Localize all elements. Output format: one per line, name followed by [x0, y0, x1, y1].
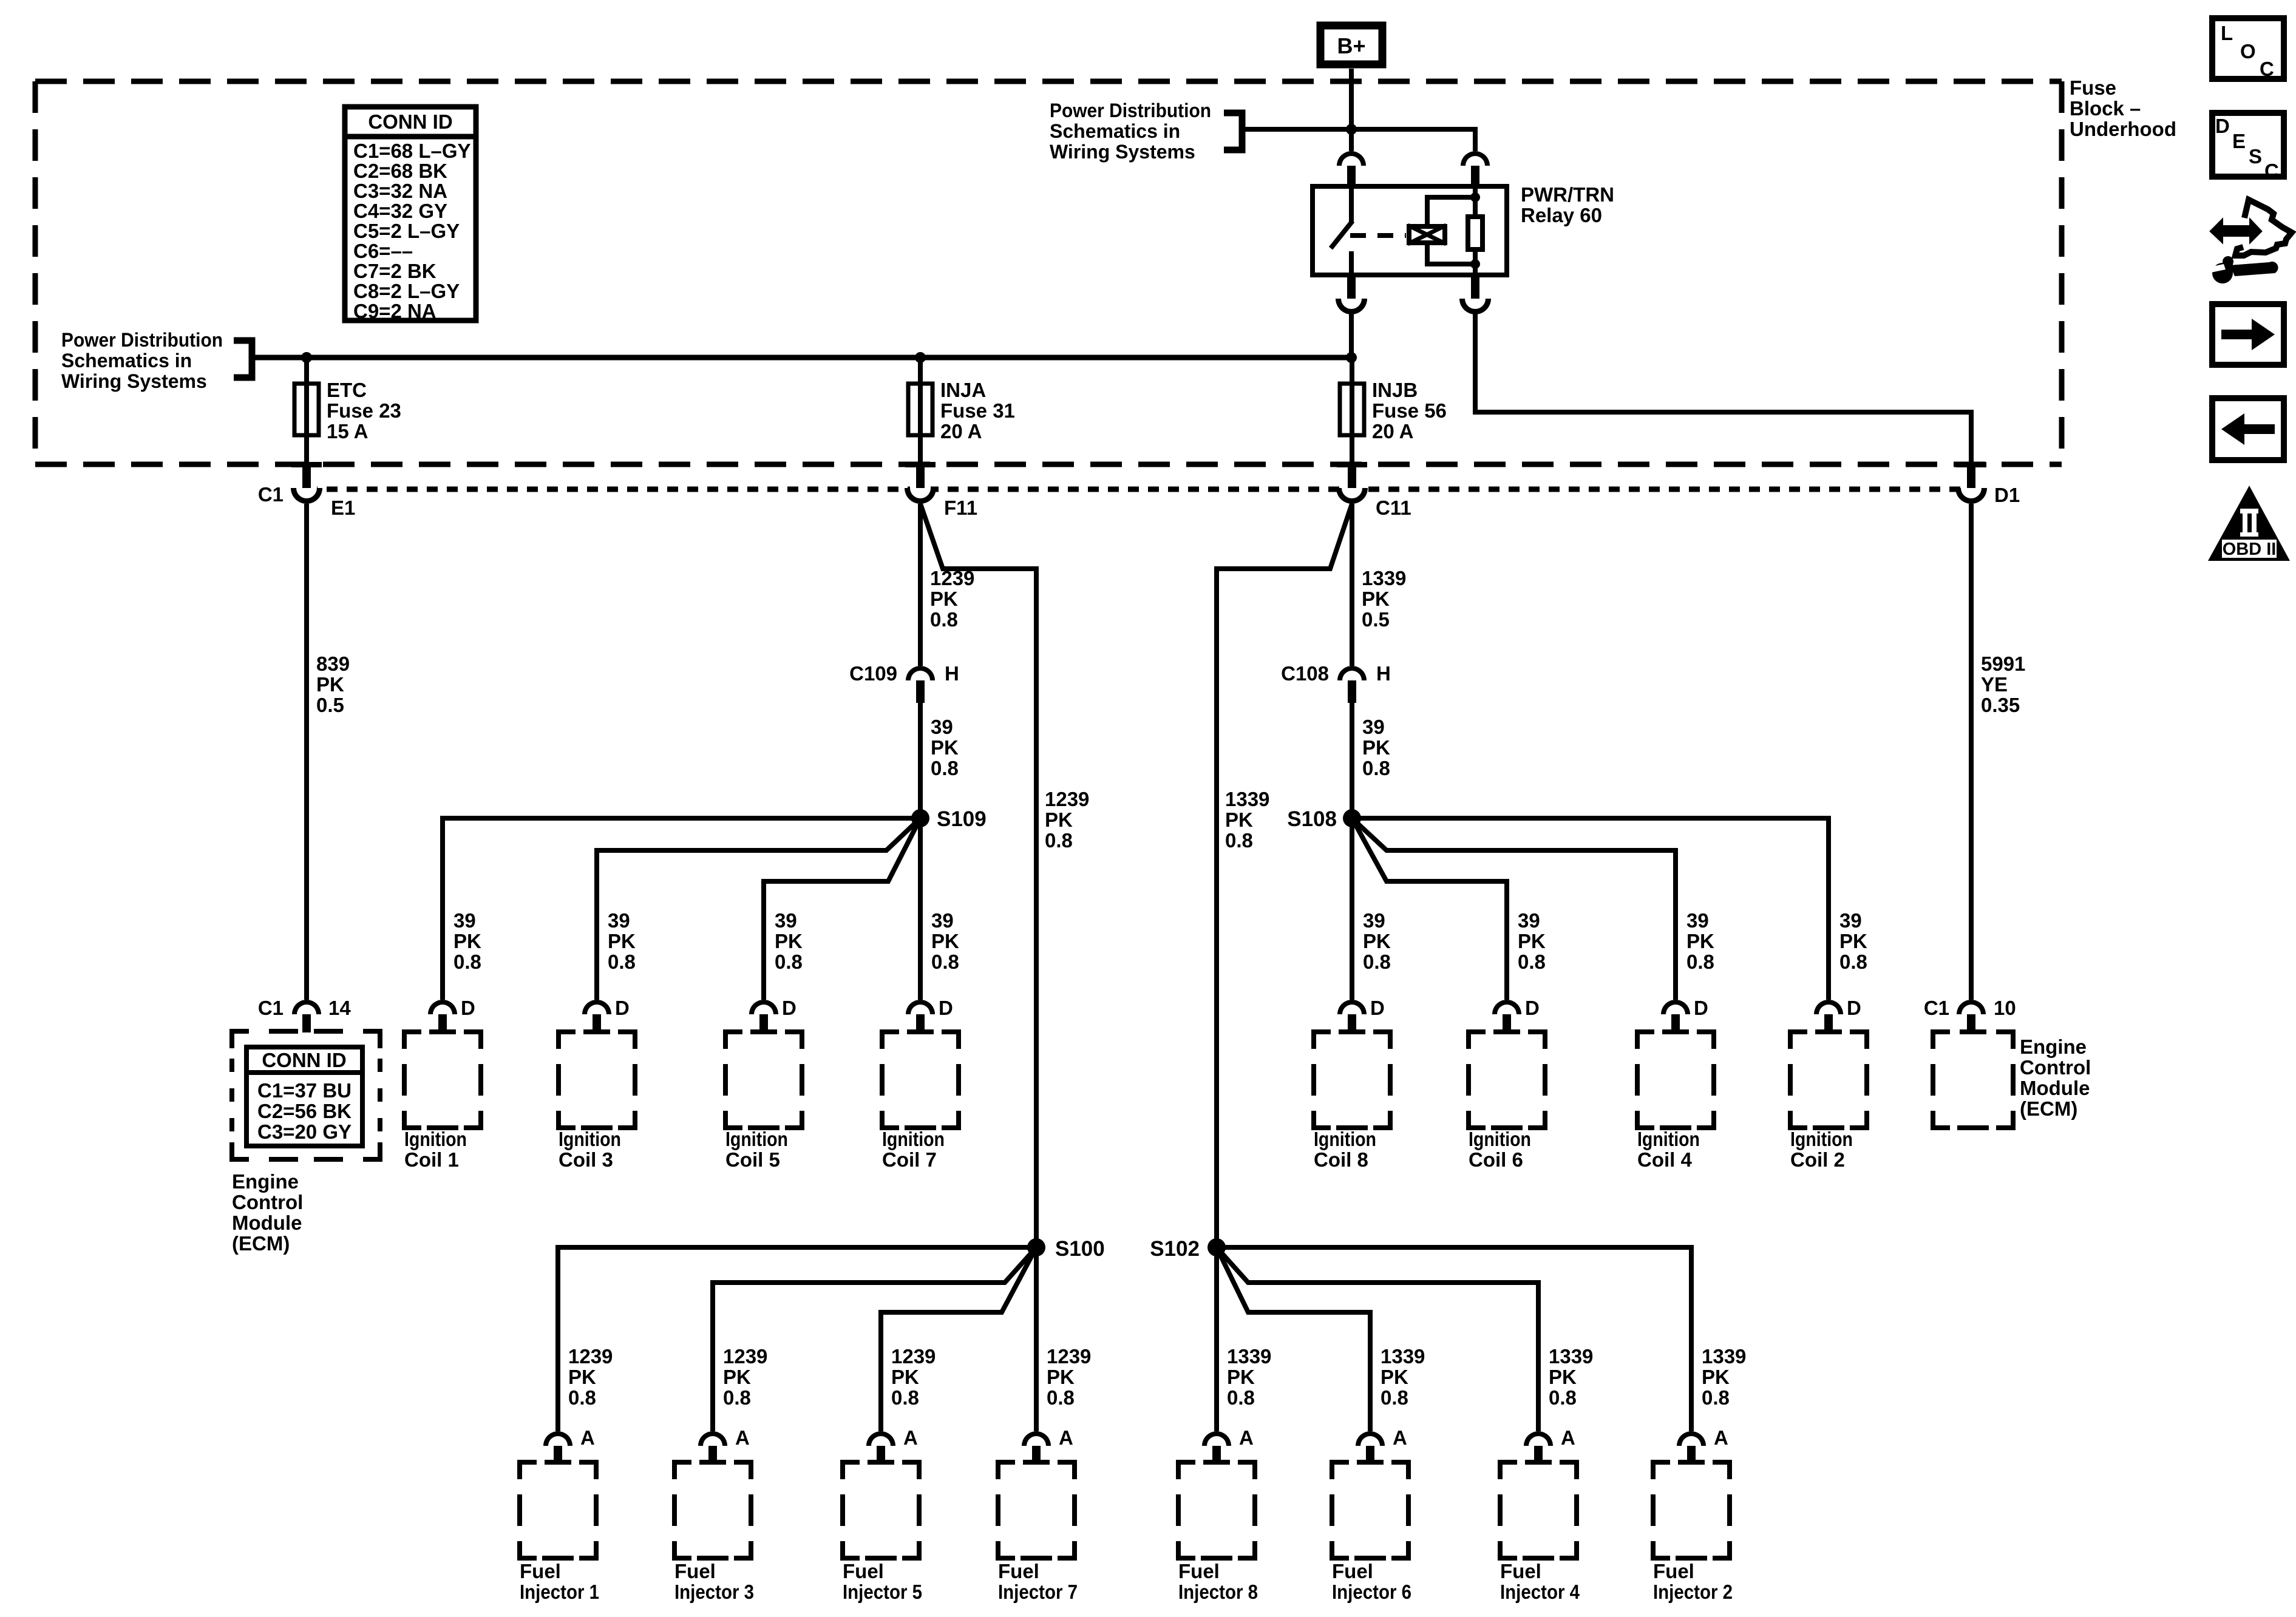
wire relay pin 5 to D1	[1475, 312, 1971, 462]
ignition coil 1 box	[404, 1032, 481, 1128]
svg-text:39: 39	[1362, 716, 1385, 738]
connector C108	[1337, 666, 1367, 680]
svg-text:Ignition: Ignition	[404, 1128, 467, 1150]
svg-text:Engine: Engine	[232, 1170, 299, 1193]
svg-text:1239: 1239	[723, 1345, 767, 1368]
svg-text:C: C	[2260, 58, 2274, 80]
svg-text:Injector 1: Injector 1	[520, 1581, 599, 1603]
connector F11	[905, 462, 936, 467]
svg-text:Coil 6: Coil 6	[1469, 1148, 1523, 1171]
svg-text:Schematics in: Schematics in	[1050, 120, 1180, 142]
svg-text:Coil 7: Coil 7	[882, 1148, 937, 1171]
svg-text:D: D	[1525, 997, 1540, 1019]
svg-text:Module: Module	[232, 1212, 302, 1234]
svg-text:0.8: 0.8	[1518, 951, 1546, 973]
svg-text:C11: C11	[1376, 497, 1411, 519]
relay pin 3 connector	[1347, 277, 1356, 299]
svg-text:D: D	[1694, 997, 1708, 1019]
fuel injector 4 box	[1500, 1462, 1577, 1558]
connector coil 8 pin D	[1337, 1000, 1367, 1014]
svg-text:1339: 1339	[1225, 788, 1269, 810]
svg-text:A: A	[1714, 1426, 1728, 1449]
svg-text:A: A	[1393, 1426, 1407, 1449]
svg-text:0.8: 0.8	[930, 608, 958, 631]
ignition coil 3 box	[559, 1032, 635, 1128]
fuel injector 2 box	[1653, 1462, 1730, 1558]
connector C109	[906, 666, 935, 680]
svg-text:0.8: 0.8	[1225, 829, 1253, 852]
connector ECM C1 pin 10	[1957, 1000, 1986, 1014]
svg-text:Injector 3: Injector 3	[674, 1581, 754, 1603]
svg-text:Injector 6: Injector 6	[1332, 1581, 1411, 1603]
wire S108 to coil 6	[1352, 818, 1507, 1000]
svg-text:PK: PK	[931, 930, 959, 952]
ignition coil 2 box	[1790, 1032, 1867, 1128]
svg-text:Ignition: Ignition	[1469, 1128, 1531, 1150]
fuel injector 8 box	[1178, 1462, 1255, 1558]
fuel injector 3 box	[674, 1462, 751, 1558]
relay pin 1 connector	[1337, 151, 1366, 166]
wire S109 to coil 5	[764, 818, 920, 1000]
svg-text:C1=68 L–GY: C1=68 L–GY	[353, 140, 471, 162]
svg-text:Ignition: Ignition	[1790, 1128, 1853, 1150]
svg-text:10: 10	[1994, 997, 2016, 1019]
svg-text:PK: PK	[891, 1366, 919, 1388]
svg-text:C7=2 BK: C7=2 BK	[353, 260, 436, 282]
connector injector 4 pin A	[1524, 1431, 1553, 1446]
svg-text:39: 39	[931, 909, 954, 932]
svg-text:Block –: Block –	[2070, 97, 2141, 120]
svg-text:D1: D1	[1994, 484, 2020, 506]
svg-text:PK: PK	[316, 673, 344, 696]
svg-text:PK: PK	[453, 930, 481, 952]
splice S102	[1207, 1238, 1226, 1256]
connector injector 6 pin A	[1356, 1431, 1385, 1446]
svg-text:Ignition: Ignition	[882, 1128, 945, 1150]
svg-text:39: 39	[1363, 909, 1385, 932]
wire S109 to coil 3	[597, 818, 920, 1000]
svg-text:PK: PK	[1227, 1366, 1255, 1388]
relay switch	[1349, 184, 1354, 222]
svg-text:1239: 1239	[1045, 788, 1089, 810]
svg-text:PK: PK	[1362, 588, 1390, 610]
svg-text:H: H	[945, 662, 959, 685]
svg-text:Fuel: Fuel	[1500, 1560, 1541, 1582]
icon component view (arrow and wrench)	[2211, 220, 2261, 242]
svg-text:1239: 1239	[1047, 1345, 1091, 1368]
connector coil 6 pin D	[1492, 1000, 1521, 1014]
svg-text:0.8: 0.8	[775, 951, 803, 973]
svg-text:E: E	[2232, 130, 2246, 152]
svg-text:Fuel: Fuel	[843, 1560, 884, 1582]
svg-text:Fuse 56: Fuse 56	[1372, 399, 1447, 422]
svg-text:YE: YE	[1981, 673, 2008, 696]
svg-text:A: A	[903, 1426, 918, 1449]
svg-text:1339: 1339	[1549, 1345, 1593, 1368]
svg-text:0.8: 0.8	[931, 757, 959, 779]
svg-text:Power Distribution: Power Distribution	[1050, 100, 1211, 121]
svg-text:Ignition: Ignition	[559, 1128, 621, 1150]
node feed junction	[1346, 124, 1357, 135]
wire S108 to coil 4	[1352, 818, 1676, 1000]
svg-text:D: D	[939, 997, 953, 1019]
svg-text:39: 39	[1518, 909, 1540, 932]
icon LOC	[2212, 18, 2284, 79]
connector coil 1 pin D	[428, 1000, 457, 1014]
svg-text:20 A: 20 A	[940, 420, 982, 442]
svg-text:Fuse 31: Fuse 31	[940, 399, 1015, 422]
svg-text:Injector 5: Injector 5	[843, 1581, 922, 1603]
svg-text:(ECM): (ECM)	[2020, 1097, 2077, 1120]
svg-text:PK: PK	[930, 588, 958, 610]
connector coil 5 pin D	[749, 1000, 778, 1014]
svg-text:E1: E1	[331, 497, 355, 519]
svg-text:39: 39	[453, 909, 476, 932]
svg-text:1239: 1239	[891, 1345, 936, 1368]
svg-text:PK: PK	[775, 930, 803, 952]
svg-text:Injector 2: Injector 2	[1653, 1581, 1733, 1603]
svg-text:S102: S102	[1150, 1237, 1200, 1261]
svg-text:1339: 1339	[1381, 1345, 1425, 1368]
svg-text:Injector 4: Injector 4	[1500, 1581, 1580, 1603]
icon arrow left	[2212, 398, 2284, 460]
svg-text:14: 14	[328, 997, 351, 1019]
wire 5991 YE	[1969, 504, 1974, 1000]
ECM CONN ID table	[246, 1047, 362, 1146]
svg-text:(ECM): (ECM)	[232, 1232, 290, 1255]
svg-text:C1: C1	[258, 997, 284, 1019]
svg-text:PK: PK	[608, 930, 636, 952]
svg-text:L: L	[2221, 22, 2233, 44]
connector D1	[1956, 462, 1986, 467]
svg-text:1339: 1339	[1362, 567, 1406, 589]
ECM (left) dashed box	[232, 1031, 380, 1159]
connector coil 2 pin D	[1814, 1000, 1843, 1014]
svg-text:C8=2 L–GY: C8=2 L–GY	[353, 280, 460, 302]
svg-text:15 A: 15 A	[327, 420, 368, 442]
svg-text:Fuel: Fuel	[674, 1560, 716, 1582]
svg-text:C3=20 GY: C3=20 GY	[257, 1120, 352, 1143]
svg-text:D: D	[782, 997, 796, 1019]
svg-text:Fuse 23: Fuse 23	[327, 399, 401, 422]
svg-text:Coil 1: Coil 1	[404, 1148, 459, 1171]
svg-text:A: A	[1059, 1426, 1073, 1449]
relay PWR/TRN box	[1313, 186, 1507, 275]
svg-text:C4=32 GY: C4=32 GY	[353, 200, 447, 222]
wire S102 to injector 4	[1217, 1247, 1538, 1431]
svg-text:0.8: 0.8	[891, 1386, 919, 1409]
ECM (right) dashed box	[1933, 1032, 2013, 1128]
relay pin 5 connector	[1471, 277, 1479, 299]
svg-text:Wiring Systems: Wiring Systems	[1050, 141, 1195, 163]
splice S109	[911, 809, 929, 827]
connector injector 8 pin A	[1202, 1431, 1231, 1446]
svg-text:0.8: 0.8	[453, 951, 481, 973]
bus wire	[252, 355, 1351, 361]
wire S102 to injector 6	[1217, 1247, 1370, 1431]
svg-text:0.8: 0.8	[1045, 829, 1073, 852]
wire C11 to S102	[1217, 504, 1352, 1247]
svg-text:O: O	[2240, 40, 2256, 63]
ignition coil 5 box	[725, 1032, 802, 1128]
svg-text:PK: PK	[1518, 930, 1546, 952]
svg-text:Ignition: Ignition	[1314, 1128, 1376, 1150]
svg-text:D: D	[2215, 115, 2230, 137]
svg-text:CONN ID: CONN ID	[368, 110, 452, 133]
svg-text:D: D	[1847, 997, 1861, 1019]
svg-text:C108: C108	[1281, 662, 1329, 685]
svg-text:Fuel: Fuel	[1178, 1560, 1220, 1582]
svg-text:PK: PK	[1363, 930, 1391, 952]
svg-text:Injector 7: Injector 7	[998, 1581, 1078, 1603]
svg-text:S: S	[2249, 145, 2262, 168]
svg-text:D: D	[615, 997, 630, 1019]
svg-text:0.8: 0.8	[723, 1386, 751, 1409]
splice S100	[1027, 1238, 1045, 1256]
svg-text:H: H	[1376, 662, 1391, 685]
splice S108	[1343, 809, 1361, 827]
svg-text:39: 39	[1839, 909, 1862, 932]
svg-text:Fuel: Fuel	[1653, 1560, 1694, 1582]
svg-text:Relay 60: Relay 60	[1521, 204, 1602, 226]
svg-text:0.8: 0.8	[608, 951, 636, 973]
svg-text:0.8: 0.8	[1363, 951, 1391, 973]
svg-text:PK: PK	[1362, 736, 1390, 759]
svg-text:Coil 2: Coil 2	[1790, 1148, 1845, 1171]
svg-text:PK: PK	[1225, 808, 1253, 831]
svg-text:20 A: 20 A	[1372, 420, 1413, 442]
svg-text:1339: 1339	[1227, 1345, 1271, 1368]
node bus-ETC	[301, 352, 312, 363]
wire C108 to S108	[1350, 703, 1354, 818]
svg-text:INJB: INJB	[1372, 379, 1418, 401]
svg-text:839: 839	[316, 653, 350, 675]
wire relay pin 3 to bus	[1349, 312, 1354, 358]
node relay coil bottom	[1470, 259, 1480, 269]
svg-text:C1: C1	[258, 483, 284, 506]
relay coil	[1427, 197, 1475, 264]
svg-text:0.8: 0.8	[1839, 951, 1867, 973]
connector injector 3 pin A	[698, 1431, 727, 1446]
svg-text:C2=56 BK: C2=56 BK	[257, 1100, 352, 1122]
wire F11 to C109	[918, 504, 923, 666]
svg-text:PK: PK	[1702, 1366, 1730, 1388]
svg-text:Power Distribution: Power Distribution	[61, 329, 223, 351]
svg-text:Coil 8: Coil 8	[1314, 1148, 1368, 1171]
svg-text:PK: PK	[1686, 930, 1714, 952]
wire S109 to coil 7	[918, 818, 923, 1000]
wire S102 to injector 8	[1214, 1247, 1219, 1431]
svg-text:C9=2 NA: C9=2 NA	[353, 300, 436, 322]
svg-text:0.5: 0.5	[316, 694, 344, 716]
svg-text:F11: F11	[944, 497, 977, 519]
svg-text:Fuse: Fuse	[2070, 76, 2116, 99]
svg-text:PK: PK	[1549, 1366, 1577, 1388]
svg-text:Engine: Engine	[2020, 1036, 2087, 1058]
svg-text:Schematics in: Schematics in	[61, 350, 192, 371]
svg-text:PK: PK	[723, 1366, 751, 1388]
svg-text:1239: 1239	[568, 1345, 613, 1368]
svg-text:B+: B+	[1337, 33, 1365, 58]
svg-text:INJA: INJA	[940, 379, 986, 401]
wire S100 to injector 7	[1034, 1247, 1039, 1431]
svg-text:Control: Control	[232, 1191, 303, 1213]
svg-text:C: C	[2264, 160, 2279, 182]
fuse ETC 23	[304, 355, 309, 464]
svg-text:Underhood: Underhood	[2070, 118, 2176, 140]
svg-text:Fuel: Fuel	[1332, 1560, 1373, 1582]
svg-text:0.8: 0.8	[1047, 1386, 1075, 1409]
svg-text:C1: C1	[1924, 997, 1949, 1019]
svg-text:S109: S109	[937, 807, 987, 831]
svg-text:A: A	[1239, 1426, 1254, 1449]
node bus-relay	[1346, 352, 1357, 363]
wire feed to relay pin 2	[1351, 129, 1475, 151]
svg-text:0.5: 0.5	[1362, 608, 1390, 631]
svg-text:Ignition: Ignition	[725, 1128, 788, 1150]
svg-text:C1=37 BU: C1=37 BU	[257, 1079, 352, 1102]
svg-text:CONN ID: CONN ID	[262, 1049, 346, 1071]
ignition coil 8 box	[1314, 1032, 1390, 1128]
wire S108 to coil 8	[1350, 818, 1354, 1000]
ignition coil 4 box	[1637, 1032, 1714, 1128]
svg-text:PK: PK	[931, 736, 959, 759]
svg-text:PK: PK	[1839, 930, 1867, 952]
svg-text:5991: 5991	[1981, 653, 2025, 675]
fuel injector 1 box	[520, 1462, 596, 1558]
svg-text:0.8: 0.8	[1227, 1386, 1255, 1409]
svg-text:39: 39	[931, 716, 953, 738]
svg-text:D: D	[1370, 997, 1385, 1019]
ignition coil 6 box	[1469, 1032, 1545, 1128]
fuel injector 7 box	[998, 1462, 1075, 1558]
svg-text:C5=2 L–GY: C5=2 L–GY	[353, 220, 460, 242]
wire S100 to injector 3	[713, 1247, 1036, 1431]
svg-text:C3=32 NA: C3=32 NA	[353, 180, 447, 202]
svg-text:Fuel: Fuel	[998, 1560, 1039, 1582]
relay pin 2 connector	[1461, 151, 1490, 166]
svg-text:0.8: 0.8	[931, 951, 959, 973]
svg-text:C6=––: C6=––	[353, 240, 413, 262]
connector injector 7 pin A	[1022, 1431, 1051, 1446]
svg-text:C2=68 BK: C2=68 BK	[353, 160, 447, 182]
wire S109 to coil 1	[443, 818, 920, 1000]
svg-text:PK: PK	[1047, 1366, 1075, 1388]
fuse INJB 56	[1350, 355, 1354, 464]
fuse INJA 31	[918, 355, 923, 464]
svg-text:OBD II: OBD II	[2223, 540, 2277, 559]
harness connector dotted line	[307, 487, 1971, 492]
svg-text:C109: C109	[849, 662, 897, 685]
svg-text:1339: 1339	[1702, 1345, 1746, 1368]
node relay coil top	[1470, 192, 1480, 202]
icon DESC	[2212, 113, 2284, 177]
svg-text:39: 39	[1686, 909, 1709, 932]
wire F11 to S100	[920, 504, 1036, 1247]
wire S102 to injector 2	[1217, 1247, 1691, 1431]
svg-text:PK: PK	[1381, 1366, 1408, 1388]
connector coil 3 pin D	[582, 1000, 611, 1014]
svg-text:0.8: 0.8	[1686, 951, 1714, 973]
svg-text:0.8: 0.8	[1549, 1386, 1577, 1409]
icon arrow right	[2212, 304, 2284, 365]
svg-text:0.8: 0.8	[1381, 1386, 1408, 1409]
wire S108 to coil 2	[1352, 818, 1829, 1000]
ignition coil 7 box	[882, 1032, 959, 1128]
icon OBD II	[2208, 486, 2290, 561]
wire S100 to injector 5	[881, 1247, 1036, 1431]
svg-text:Coil 3: Coil 3	[559, 1148, 613, 1171]
connector ECM C1 pin 14	[292, 1000, 321, 1014]
svg-text:D: D	[461, 997, 475, 1019]
svg-text:PK: PK	[568, 1366, 596, 1388]
fuel injector 6 box	[1332, 1462, 1408, 1558]
svg-text:A: A	[1561, 1426, 1575, 1449]
svg-text:0.8: 0.8	[568, 1386, 596, 1409]
svg-text:Control: Control	[2020, 1056, 2091, 1079]
wire 839 PK	[304, 504, 309, 1000]
svg-text:PWR/TRN: PWR/TRN	[1521, 183, 1614, 206]
connector injector 5 pin A	[866, 1431, 895, 1446]
connector C1/E1	[291, 462, 322, 467]
svg-text:0.8: 0.8	[1702, 1386, 1730, 1409]
svg-text:ETC: ETC	[327, 379, 367, 401]
svg-text:Fuel: Fuel	[520, 1560, 561, 1582]
svg-text:S100: S100	[1055, 1237, 1105, 1261]
relay resistor	[1473, 184, 1478, 214]
fuse block - underhood dashed border	[35, 81, 2062, 464]
svg-text:0.35: 0.35	[1981, 694, 2020, 716]
connector injector 2 pin A	[1677, 1431, 1706, 1446]
battery terminal B+	[1320, 25, 1382, 64]
svg-text:Coil 4: Coil 4	[1637, 1148, 1692, 1171]
svg-text:Injector 8: Injector 8	[1178, 1581, 1258, 1603]
connector injector 1 pin A	[543, 1431, 572, 1446]
svg-text:PK: PK	[1045, 808, 1073, 831]
svg-text:A: A	[580, 1426, 595, 1449]
svg-text:39: 39	[775, 909, 797, 932]
svg-text:Ignition: Ignition	[1637, 1128, 1700, 1150]
svg-text:A: A	[735, 1426, 750, 1449]
wire C11 to C108	[1350, 504, 1354, 666]
svg-text:Module: Module	[2020, 1077, 2090, 1099]
fuse block CONN ID table	[345, 107, 476, 320]
fuel injector 5 box	[843, 1462, 919, 1558]
wire C109 to S109	[918, 703, 923, 818]
svg-text:Wiring Systems: Wiring Systems	[61, 370, 207, 392]
connector C11	[1337, 462, 1367, 467]
connector coil 7 pin D	[906, 1000, 935, 1014]
wire B+ to relay pin 1	[1349, 69, 1354, 151]
svg-text:S108: S108	[1287, 807, 1337, 831]
svg-text:Coil 5: Coil 5	[725, 1148, 780, 1171]
node bus-INJA	[915, 352, 926, 363]
connector coil 4 pin D	[1661, 1000, 1690, 1014]
wire S100 to injector 1	[558, 1247, 1036, 1431]
svg-text:39: 39	[608, 909, 630, 932]
svg-text:0.8: 0.8	[1362, 757, 1390, 779]
